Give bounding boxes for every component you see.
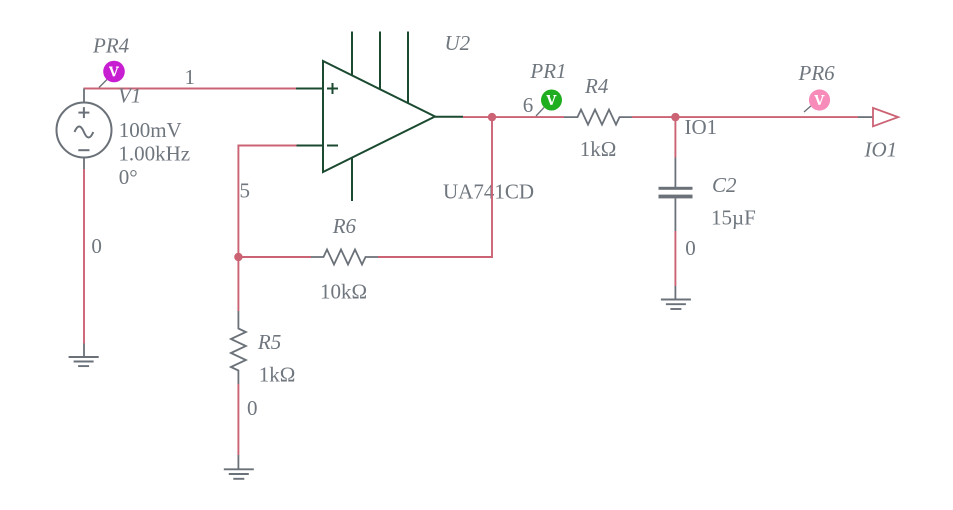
svg-text:U2: U2 — [445, 31, 471, 55]
resistor R6 — [311, 214, 378, 304]
svg-text:PR6: PR6 — [798, 61, 836, 85]
wire net 0: R5 to ground — [237, 384, 239, 455]
probe PR6 — [798, 61, 836, 112]
op-amp pin + input — [296, 88, 323, 90]
node 1 label — [185, 65, 196, 89]
wire net 5: junction to R6 — [238, 256, 311, 258]
svg-text:PR4: PR4 — [92, 34, 130, 58]
svg-text:15µF: 15µF — [711, 206, 756, 230]
V1 label — [118, 84, 141, 108]
ground (V1) — [69, 344, 99, 367]
svg-text:R5: R5 — [257, 330, 281, 354]
node 0 label (R5) — [247, 396, 258, 420]
probe PR4 — [92, 34, 130, 88]
resistor R4 — [564, 74, 632, 161]
svg-text:1kΩ: 1kΩ — [580, 137, 617, 161]
wire net 1: V1 top to op-amp + input — [84, 88, 297, 90]
op-amp bottom pin — [351, 158, 353, 202]
svg-text:IO1: IO1 — [685, 115, 718, 139]
wire net 6: R6 to output — [378, 117, 492, 257]
wire net 0: V1 bottom to ground — [83, 169, 85, 344]
svg-text:6: 6 — [523, 93, 534, 117]
svg-text:C2: C2 — [712, 173, 737, 197]
svg-text:1.00kHz: 1.00kHz — [118, 142, 190, 166]
svg-text:5: 5 — [240, 179, 251, 203]
node IO1 label — [685, 115, 718, 139]
node 0 label (V1) — [91, 234, 102, 258]
op-amp pin - input — [296, 145, 323, 147]
op-amp output pin — [435, 116, 463, 118]
svg-text:0: 0 — [247, 396, 258, 420]
svg-text:1: 1 — [185, 65, 196, 89]
wire net 0: R5 branch from junction — [237, 257, 239, 311]
probe PR1 — [529, 59, 566, 116]
svg-text:0°: 0° — [119, 165, 138, 189]
IO1 connector pin — [858, 116, 873, 118]
op-amp top pin 2 — [379, 32, 381, 90]
node 0 label (C2) — [685, 236, 696, 260]
junction node IO1 — [671, 113, 679, 121]
wire net IO1: junction to C2 — [674, 117, 676, 157]
V1 value 1.00kHz — [118, 142, 190, 166]
voltage source V1 — [57, 89, 112, 170]
svg-text:R4: R4 — [584, 74, 609, 98]
ground (C2) — [661, 286, 691, 309]
V1 value 100mV — [119, 118, 182, 142]
svg-text:UA741CD: UA741CD — [443, 180, 534, 204]
ground (R5) — [224, 455, 254, 479]
svg-text:10kΩ: 10kΩ — [320, 280, 367, 304]
op-amp top pin 3 — [407, 32, 409, 104]
junction node 5 — [234, 253, 242, 261]
svg-text:0: 0 — [685, 236, 696, 260]
wire net 0: C2 to ground — [674, 231, 676, 286]
capacitor C2 — [659, 158, 756, 232]
svg-text:IO1: IO1 — [864, 138, 898, 162]
svg-text:100mV: 100mV — [119, 118, 182, 142]
U2 part UA741CD — [443, 180, 534, 204]
wire net IO1: R4 to output connector — [632, 116, 858, 118]
svg-text:0: 0 — [91, 234, 102, 258]
op-amp U2 — [323, 61, 435, 172]
node 5 label — [240, 179, 251, 203]
svg-text:1kΩ: 1kΩ — [259, 363, 296, 387]
V1 value 0deg — [119, 165, 138, 189]
wire net 5: - input to feedback junction — [238, 146, 296, 258]
U2 label — [445, 31, 471, 55]
junction node 6 — [488, 113, 496, 121]
svg-text:R6: R6 — [332, 214, 357, 238]
svg-text:V1: V1 — [118, 84, 141, 108]
node 6 label — [523, 93, 534, 117]
op-amp top pin 1 — [351, 32, 353, 77]
wire net 6: op-amp output — [463, 116, 564, 118]
svg-text:PR1: PR1 — [529, 59, 566, 83]
IO1 output connector arrow — [864, 108, 899, 162]
resistor R5 — [231, 311, 295, 387]
